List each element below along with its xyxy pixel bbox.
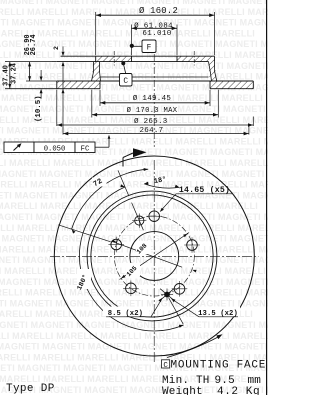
svg-text:4.2 Kg: 4.2 Kg [217, 386, 260, 395]
svg-text:37.40: 37.40 [3, 65, 11, 86]
svg-text:MARELLI MARELLI MARELLI MARELL: MARELLI MARELLI MARELLI MARELLI MARELLI … [0, 50, 268, 60]
svg-text:2: 2 [53, 46, 60, 50]
svg-text:14.65 (x5): 14.65 (x5) [179, 185, 230, 195]
svg-text:Ø 265.3: Ø 265.3 [134, 117, 168, 126]
svg-text:MOUNTING FACE: MOUNTING FACE [171, 359, 267, 371]
svg-text:0.050: 0.050 [44, 145, 66, 153]
svg-text:Type DP: Type DP [6, 383, 55, 395]
svg-text:MAGNETI MAGNETI MAGNETI MAGNET: MAGNETI MAGNETI MAGNETI MAGNETI MAGNETI … [0, 61, 268, 71]
svg-text:264.7: 264.7 [139, 127, 163, 135]
svg-text:MARELLI MARELLI MARELLI MARELL: MARELLI MARELLI MARELLI MARELLI MARELLI … [0, 223, 268, 233]
svg-text:C: C [163, 362, 168, 370]
svg-text:MAGNETI MAGNETI MAGNETI MAGNET: MAGNETI MAGNETI MAGNETI MAGNETI MAGNETI … [0, 0, 268, 6]
svg-text:(10.5): (10.5) [35, 95, 43, 122]
svg-text:MAGNETI MAGNETI MAGNETI MAGNET: MAGNETI MAGNETI MAGNETI MAGNETI MAGNETI … [0, 342, 268, 352]
svg-text:MARELLI MARELLI MARELLI MARELL: MARELLI MARELLI MARELLI MARELLI MARELLI … [0, 28, 255, 38]
svg-text:MAGNETI MAGNETI MAGNETI MAGNET: MAGNETI MAGNETI MAGNETI MAGNETI MAGNETI … [0, 126, 268, 136]
svg-text:Ø 160.2: Ø 160.2 [139, 6, 178, 16]
svg-text:F: F [147, 45, 152, 53]
svg-text:Weight: Weight [162, 386, 203, 395]
svg-text:Ø 149.45: Ø 149.45 [133, 94, 172, 103]
svg-text:MARELLI MARELLI MARELLI MARELL: MARELLI MARELLI MARELLI MARELLI MARELLI … [0, 201, 258, 211]
svg-text:26.74: 26.74 [30, 34, 38, 55]
svg-text:Ø 61.084: Ø 61.084 [134, 21, 173, 30]
svg-text:37.24: 37.24 [11, 63, 19, 84]
svg-text:MAGNETI MAGNETI MAGNETI MAGNET: MAGNETI MAGNETI MAGNETI MAGNETI MAGNETI … [0, 277, 268, 287]
svg-text:C: C [123, 78, 128, 86]
svg-text:FC: FC [81, 145, 90, 153]
svg-text:61.010: 61.010 [142, 30, 171, 38]
svg-text:Ø 170.3 MAX: Ø 170.3 MAX [127, 106, 178, 115]
svg-text:MARELLI MARELLI MARELLI MARELL: MARELLI MARELLI MARELLI MARELLI MARELLI … [0, 158, 268, 168]
svg-text:MARELLI MARELLI MARELLI MARELL: MARELLI MARELLI MARELLI MARELLI MARELLI … [0, 331, 268, 341]
svg-text:MAGNETI MAGNETI MAGNETI MAGNET: MAGNETI MAGNETI MAGNETI MAGNETI MAGNETI … [0, 169, 265, 179]
svg-text:MAGNETI MAGNETI MAGNETI MAGNET: MAGNETI MAGNETI MAGNETI MAGNETI MAGNETI … [0, 39, 268, 49]
